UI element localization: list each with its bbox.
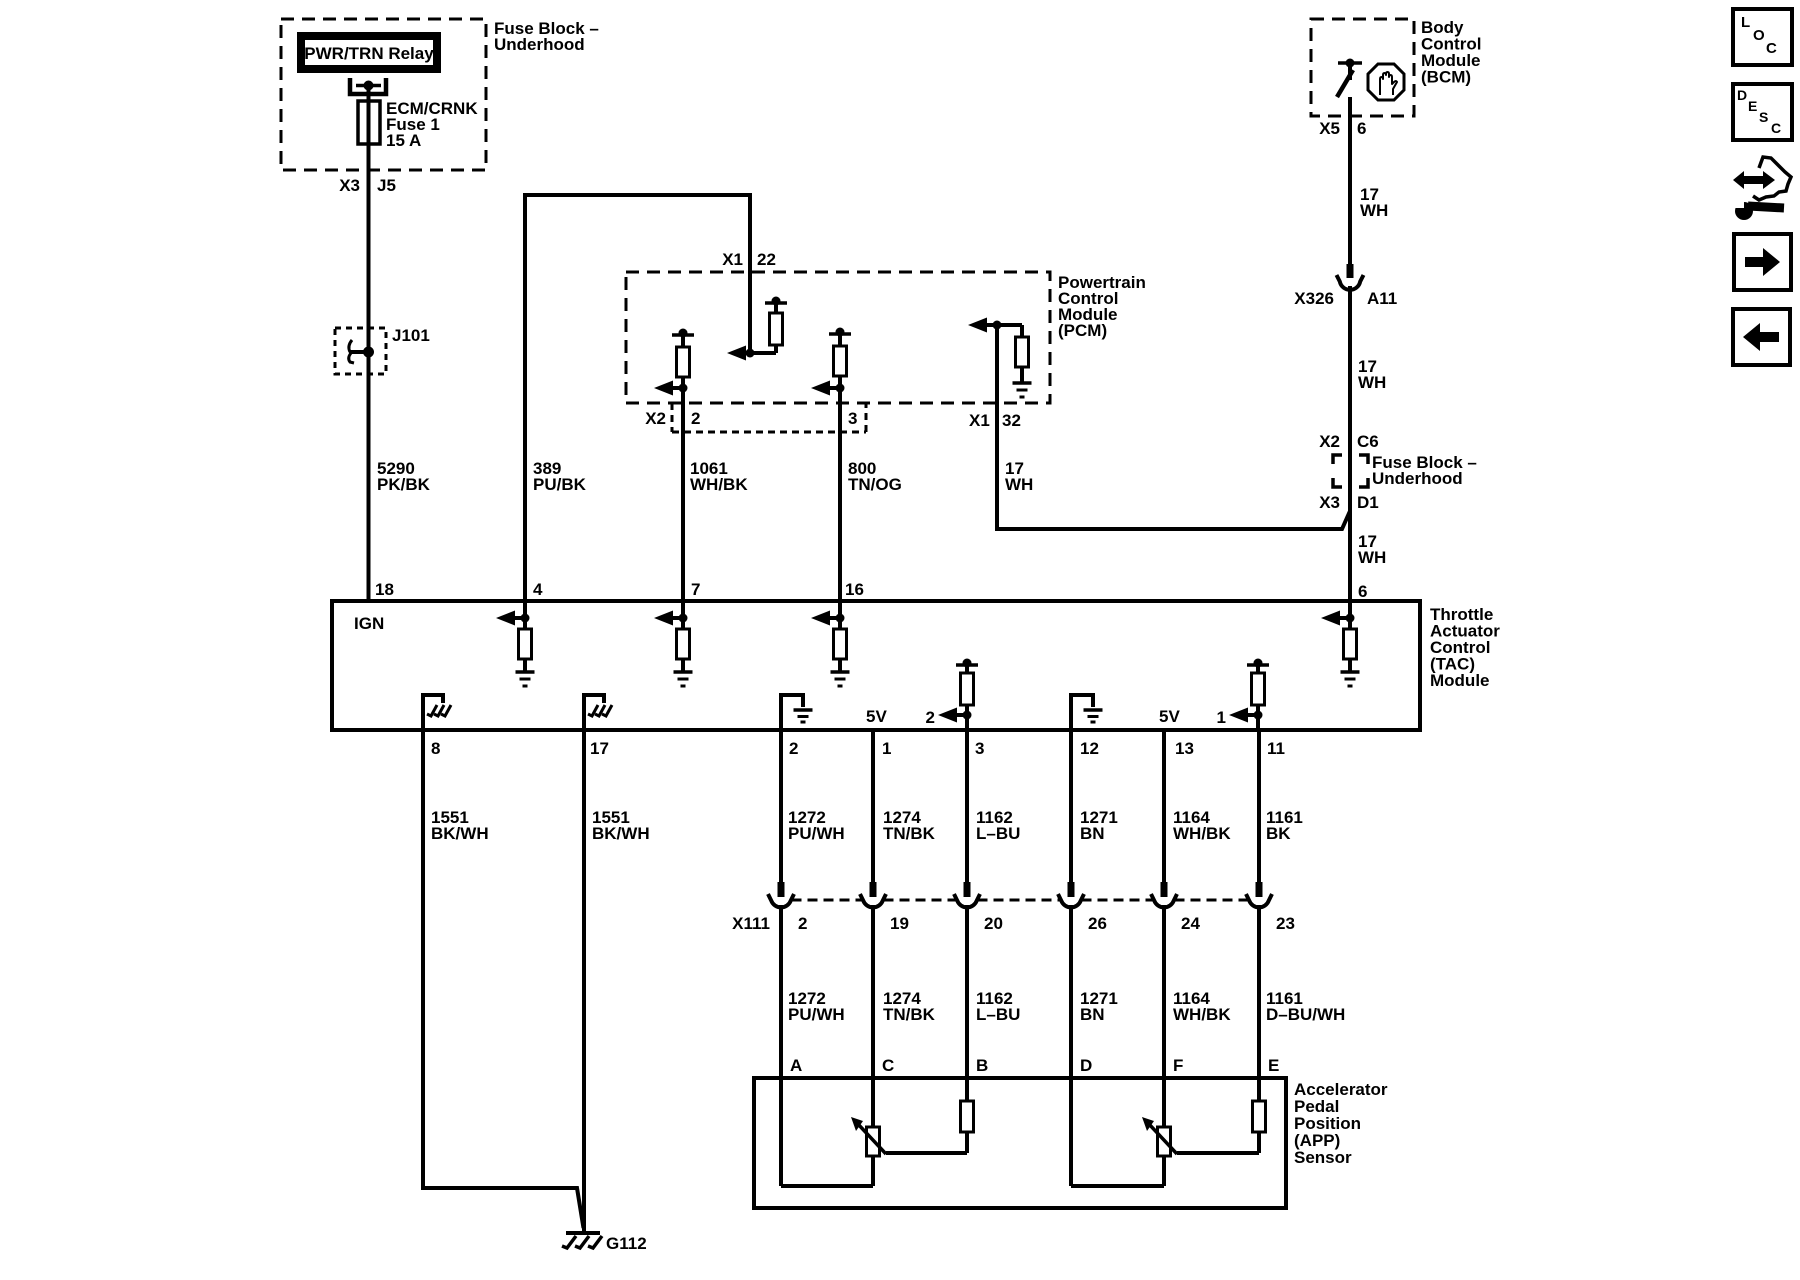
TAC input termination pin 16: arrow, resistor, ground bbox=[811, 601, 850, 686]
resistor PCM R1 (at X1-22) bbox=[727, 297, 787, 361]
wire label 17 WH (second) bbox=[1358, 357, 1386, 392]
resistor PCM R3 (pin X2-3) bbox=[811, 328, 851, 396]
svg-text:B: B bbox=[976, 1056, 988, 1075]
svg-text:WH: WH bbox=[1358, 373, 1386, 392]
svg-text:1: 1 bbox=[882, 739, 891, 758]
svg-text:BN: BN bbox=[1080, 1005, 1105, 1024]
svg-text:L–BU: L–BU bbox=[976, 824, 1020, 843]
svg-text:22: 22 bbox=[757, 250, 776, 269]
svg-text:X2: X2 bbox=[1319, 432, 1340, 451]
svg-text:E: E bbox=[1748, 98, 1757, 114]
svg-text:TN/BK: TN/BK bbox=[883, 824, 936, 843]
TAC input termination pin 6: arrow, resistor, ground bbox=[1321, 601, 1360, 686]
svg-text:32: 32 bbox=[1002, 411, 1021, 430]
svg-text:X3: X3 bbox=[1319, 493, 1340, 512]
pin label 6 (TAC) bbox=[1358, 582, 1367, 601]
connector X326 A11 bbox=[1337, 264, 1364, 291]
svg-text:WH: WH bbox=[1360, 201, 1388, 220]
svg-text:PU/WH: PU/WH bbox=[788, 1005, 845, 1024]
svg-text:WH/BK: WH/BK bbox=[1173, 824, 1231, 843]
svg-text:Underhood: Underhood bbox=[1372, 469, 1463, 488]
connector X111 pin 24 bbox=[1151, 882, 1177, 1078]
svg-text:L: L bbox=[1741, 14, 1750, 31]
label Fuse Block - Underhood bbox=[494, 19, 599, 54]
svg-text:(PCM): (PCM) bbox=[1058, 321, 1107, 340]
svg-text:C: C bbox=[1771, 120, 1781, 136]
icon LOC box bbox=[1733, 9, 1792, 65]
svg-text:F: F bbox=[1173, 1056, 1183, 1075]
svg-text:BK/WH: BK/WH bbox=[431, 824, 489, 843]
bottom pin labels 8 17 2 1 3 12 13 11 bbox=[431, 739, 1285, 758]
top pin labels 18 4 7 16 bbox=[375, 580, 864, 599]
svg-text:5V: 5V bbox=[1159, 707, 1180, 726]
wire 1551 BK/WH pin 17 to G112 bbox=[582, 730, 586, 1233]
svg-text:A: A bbox=[790, 1056, 802, 1075]
svg-text:WH/BK: WH/BK bbox=[690, 475, 748, 494]
wire 1061 WH/BK: PCM X2-2 to TAC pin 7 bbox=[681, 388, 685, 601]
wire label 389 PU/BK bbox=[533, 459, 587, 494]
wire TAC to X111 (column 2) bbox=[871, 730, 875, 882]
svg-text:J5: J5 bbox=[377, 176, 396, 195]
connector X111 pin 19 bbox=[860, 882, 886, 1078]
svg-text:X1: X1 bbox=[722, 250, 743, 269]
svg-text:A11: A11 bbox=[1367, 289, 1397, 308]
wire TAC to X111 (column 1) bbox=[779, 730, 783, 882]
svg-text:1: 1 bbox=[1217, 708, 1226, 727]
svg-text:12: 12 bbox=[1080, 739, 1099, 758]
connector X111 pin 20 bbox=[954, 882, 980, 1078]
svg-text:5V: 5V bbox=[866, 707, 887, 726]
TAC input termination pin 7: arrow, resistor, ground bbox=[654, 601, 693, 686]
svg-text:19: 19 bbox=[890, 914, 909, 933]
svg-text:16: 16 bbox=[845, 580, 864, 599]
APP pin letters A C B D F E bbox=[790, 1056, 1279, 1075]
svg-text:J101: J101 bbox=[392, 326, 430, 345]
wire labels row 2 bbox=[788, 989, 1345, 1024]
TAC sensor input (label 2): resistor and arrow bbox=[926, 659, 978, 731]
svg-text:13: 13 bbox=[1175, 739, 1194, 758]
svg-text:TN/OG: TN/OG bbox=[848, 475, 902, 494]
svg-text:C: C bbox=[1766, 40, 1777, 57]
svg-text:X3: X3 bbox=[339, 176, 360, 195]
svg-text:X326: X326 bbox=[1294, 289, 1334, 308]
TAC input termination pin 4: arrow, resistor, ground bbox=[496, 601, 535, 686]
label Fuse Block - Underhood (pass-through) bbox=[1372, 453, 1477, 488]
wire label 17 WH bbox=[1360, 185, 1388, 220]
wire 17 WH: PCM X1-32 down and right to fuse block D1 bbox=[997, 325, 1350, 529]
module PCM dashed box bbox=[626, 272, 1050, 403]
svg-text:Sensor: Sensor bbox=[1294, 1148, 1352, 1167]
connector X111 pin 23 bbox=[1246, 882, 1272, 1078]
svg-text:(BCM): (BCM) bbox=[1421, 68, 1471, 87]
svg-text:WH/BK: WH/BK bbox=[1173, 1005, 1231, 1024]
svg-text:TN/BK: TN/BK bbox=[883, 1005, 936, 1024]
TAC chassis ground pin 17 bbox=[584, 695, 612, 728]
pin labels X3 D1 bbox=[1319, 493, 1379, 512]
svg-text:D: D bbox=[1080, 1056, 1092, 1075]
svg-text:26: 26 bbox=[1088, 914, 1107, 933]
svg-text:O: O bbox=[1753, 27, 1765, 44]
TAC signal ground pin 2 bbox=[781, 695, 813, 728]
svg-text:3: 3 bbox=[975, 739, 984, 758]
svg-text:PU/BK: PU/BK bbox=[533, 475, 587, 494]
wire 389 PU/BK: TAC pin 4 to PCM X1-22 bbox=[525, 195, 750, 601]
wire TAC to X111 (column 6) bbox=[1257, 730, 1261, 882]
svg-text:D1: D1 bbox=[1357, 493, 1379, 512]
svg-text:X1: X1 bbox=[969, 411, 990, 430]
svg-text:4: 4 bbox=[533, 580, 543, 599]
svg-text:D–BU/WH: D–BU/WH bbox=[1266, 1005, 1345, 1024]
pin label IGN bbox=[354, 614, 384, 633]
svg-text:X2: X2 bbox=[645, 409, 666, 428]
icon forward arrow box bbox=[1734, 234, 1791, 290]
svg-text:X111: X111 bbox=[732, 914, 770, 933]
pin labels X5 6 bbox=[1319, 119, 1366, 138]
TAC sensor input (label 1): resistor and arrow bbox=[1217, 659, 1269, 731]
connector X111 pin 26 bbox=[1058, 882, 1084, 1078]
label Throttle Actuator Control (TAC) Module bbox=[1430, 605, 1500, 690]
pin labels X1 22 (PCM) bbox=[722, 250, 776, 269]
resistor PCM R2 (pin X2-2) bbox=[654, 329, 694, 396]
wire label 5290 PK/BK bbox=[377, 459, 431, 494]
wire labels 1551 BK/WH x2 bbox=[431, 808, 650, 843]
svg-text:20: 20 bbox=[984, 914, 1003, 933]
5V supply labels bbox=[866, 707, 1180, 726]
wire 17 WH: X326 to TAC pin 6 bbox=[1348, 291, 1352, 601]
svg-text:IGN: IGN bbox=[354, 614, 384, 633]
svg-text:L–BU: L–BU bbox=[976, 1005, 1020, 1024]
svg-text:3: 3 bbox=[848, 409, 857, 428]
module BCM dashed box bbox=[1311, 19, 1414, 116]
svg-text:2: 2 bbox=[691, 409, 700, 428]
svg-text:17: 17 bbox=[590, 739, 609, 758]
svg-text:G112: G112 bbox=[606, 1234, 647, 1253]
svg-text:Underhood: Underhood bbox=[494, 35, 585, 54]
svg-text:S: S bbox=[1759, 109, 1768, 125]
svg-text:E: E bbox=[1268, 1056, 1279, 1075]
label X111 and pin numbers bbox=[732, 914, 1295, 933]
fuse block underhood pass-through (corner brackets) bbox=[1333, 455, 1368, 487]
hand icon (octagon) inside BCM bbox=[1368, 64, 1404, 100]
relay output clip terminal bbox=[350, 78, 386, 94]
svg-text:2: 2 bbox=[789, 739, 798, 758]
pin labels X3 J5 bbox=[339, 176, 396, 195]
svg-text:6: 6 bbox=[1358, 582, 1367, 601]
wire W1: relay to TAC pin 18 (5290 PK/BK) bbox=[367, 86, 371, 602]
splice J101 bbox=[335, 326, 430, 374]
wire 17 WH from BCM X5-6 bbox=[1348, 97, 1352, 265]
sensor APP box bbox=[754, 1078, 1286, 1208]
pin labels X2 C6 bbox=[1319, 432, 1379, 451]
switch inside BCM bbox=[1337, 59, 1362, 98]
wire labels row 1 bbox=[788, 808, 1303, 843]
svg-text:X5: X5 bbox=[1319, 119, 1340, 138]
svg-text:PK/BK: PK/BK bbox=[377, 475, 431, 494]
connector pocket X2 of PCM bbox=[672, 403, 866, 432]
svg-text:C6: C6 bbox=[1357, 432, 1379, 451]
svg-text:2: 2 bbox=[926, 708, 935, 727]
wire 1551 BK/WH pin 8 to G112 bbox=[423, 730, 584, 1228]
svg-text:D: D bbox=[1737, 87, 1747, 103]
connector X111 dashed tie line bbox=[792, 899, 1249, 902]
svg-text:BN: BN bbox=[1080, 824, 1105, 843]
wire TAC to X111 (column 3) bbox=[965, 730, 969, 882]
pin labels X2 2 3 X1 32 bbox=[645, 409, 1021, 430]
resistor PCM R4 with ground (pin X1-32) bbox=[968, 318, 1032, 398]
wire label 17 WH (third) bbox=[1358, 532, 1386, 567]
TAC signal ground pin 12 bbox=[1071, 695, 1103, 728]
icon schematic reference (arrows + outline + wrench) bbox=[1733, 157, 1791, 220]
fuse block underhood dashed box bbox=[281, 19, 486, 170]
label Accelerator Pedal Position (APP) Sensor bbox=[1294, 1080, 1388, 1167]
svg-text:7: 7 bbox=[691, 580, 700, 599]
svg-text:11: 11 bbox=[1267, 739, 1285, 758]
fuse ECM/CRNK Fuse 1 15 A bbox=[358, 99, 478, 150]
wire TAC to X111 (column 4) bbox=[1069, 730, 1073, 882]
APP sensor 2 potentiometer (pins D F E) bbox=[1071, 1078, 1266, 1186]
svg-text:Module: Module bbox=[1430, 671, 1490, 690]
svg-text:C: C bbox=[882, 1056, 894, 1075]
label Powertrain Control Module (PCM) bbox=[1058, 273, 1146, 340]
svg-text:15 A: 15 A bbox=[386, 131, 421, 150]
svg-text:PWR/TRN Relay: PWR/TRN Relay bbox=[304, 44, 434, 63]
svg-text:2: 2 bbox=[798, 914, 807, 933]
module TAC box bbox=[332, 601, 1420, 730]
svg-text:BK: BK bbox=[1266, 824, 1291, 843]
icon DESC box bbox=[1733, 84, 1792, 140]
connector X111 pin 2 bbox=[768, 882, 794, 1078]
svg-text:18: 18 bbox=[375, 580, 394, 599]
svg-text:24: 24 bbox=[1181, 914, 1200, 933]
TAC chassis ground pin 8 bbox=[423, 695, 451, 728]
APP sensor 1 potentiometer (pins A C B) bbox=[781, 1078, 974, 1186]
svg-text:WH: WH bbox=[1005, 475, 1033, 494]
svg-text:WH: WH bbox=[1358, 548, 1386, 567]
label Body Control Module (BCM) bbox=[1421, 18, 1481, 87]
wire labels 1061 WH/BK, 800 TN/OG, 17 WH bbox=[690, 459, 1033, 494]
wire TAC to X111 (column 5) bbox=[1162, 730, 1166, 882]
icon back arrow box bbox=[1733, 309, 1790, 365]
relay PWR/TRN Relay bbox=[301, 36, 437, 69]
wire 800 TN/OG: PCM X2-3 to TAC pin 16 bbox=[838, 388, 842, 601]
svg-text:23: 23 bbox=[1276, 914, 1295, 933]
svg-text:BK/WH: BK/WH bbox=[592, 824, 650, 843]
svg-text:6: 6 bbox=[1357, 119, 1366, 138]
svg-text:8: 8 bbox=[431, 739, 440, 758]
ground G112 bbox=[562, 1233, 647, 1253]
svg-text:PU/WH: PU/WH bbox=[788, 824, 845, 843]
